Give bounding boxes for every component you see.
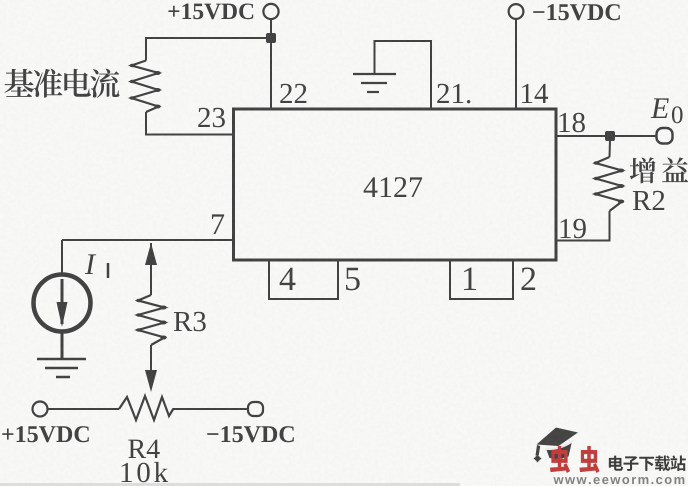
pin number 1 [464, 268, 476, 290]
terminal +15VDC (bottom) [33, 402, 48, 417]
label 增益 [630, 157, 656, 183]
label -15VDC (top) [533, 11, 544, 13]
resistor (reference current) zigzag [132, 61, 159, 113]
current source I1 circle [34, 275, 91, 332]
pin number 2 [521, 267, 535, 290]
pin number 23 [198, 108, 210, 127]
R3 top arrow (points up to pin-7 wire) [150, 243, 152, 295]
current source arrow [61, 279, 64, 324]
wire pin 18 to output terminal [556, 135, 656, 137]
pin number 4 [280, 268, 296, 290]
wire pin 14 [515, 19, 517, 109]
resistor R3 zigzag [138, 295, 165, 345]
wire resistor to pin 23 [146, 112, 233, 135]
pin number 18 [560, 113, 570, 132]
ground symbol (pin 21) [353, 73, 396, 75]
pin number 5 [346, 268, 360, 291]
pin number 21 [437, 84, 449, 103]
label -15VDC (bottom) [207, 433, 218, 435]
pin number 14 [522, 84, 532, 103]
watermark www.eeworm.com [553, 477, 563, 484]
label E0 [651, 98, 669, 118]
wire pin 7 to current source / R3 [62, 239, 233, 241]
label R2 [633, 191, 651, 210]
terminal -15VDC (top) [509, 4, 524, 19]
scan noise overlay (decorative) [0, 0, 1, 1]
terminal -15VDC (bottom) [248, 402, 263, 416]
wire junction to reference resistor top [146, 38, 271, 61]
label R3 [174, 312, 192, 331]
label I1 [85, 254, 96, 274]
label 基准电流 [4, 69, 33, 97]
wire R4 left to +15VDC terminal [48, 408, 119, 410]
pin number 22 [280, 84, 292, 103]
watermark 电子下载站 [609, 456, 623, 471]
label +15VDC (top) [168, 6, 179, 17]
IC U1 value label 4127 [364, 177, 378, 197]
junction dot at +15V node [266, 33, 276, 43]
wire output node to R2 top [609, 140, 612, 157]
terminal +15VDC (top) [263, 4, 278, 19]
wire R2 bottom to pin 19 [556, 211, 610, 241]
wire terminal to junction [270, 19, 272, 38]
label 10k [122, 463, 132, 482]
op-amp/multiplier IC U1 4127 body [234, 109, 557, 260]
watermark graduation cap icon [534, 428, 578, 463]
pin number 19 [561, 219, 571, 238]
terminal E0 [657, 128, 673, 144]
wire pin 21 to ground [375, 41, 432, 109]
pin tab box (pins 4/5) [269, 260, 338, 299]
R3 bottom arrow (points down to R4 wiper) [150, 345, 152, 372]
wire R4 right to -15VDC terminal [173, 408, 248, 410]
label R4 [128, 440, 146, 458]
junction dot at output node [605, 131, 615, 141]
wire current source to ground [61, 331, 64, 358]
pin number 7 [212, 214, 224, 234]
scan smudge bottom edge [0, 483, 460, 486]
label +15VDC (bottom) [2, 428, 13, 439]
wire pin 22 [270, 38, 272, 109]
ground symbol (current source) [37, 358, 86, 361]
pin tab box (pins 1/2) [450, 260, 513, 299]
wire to current source top [61, 240, 63, 275]
resistor R2 zigzag [596, 157, 623, 211]
watermark 虫虫 (red) [550, 446, 570, 473]
resistor R4 zigzag [119, 396, 174, 420]
